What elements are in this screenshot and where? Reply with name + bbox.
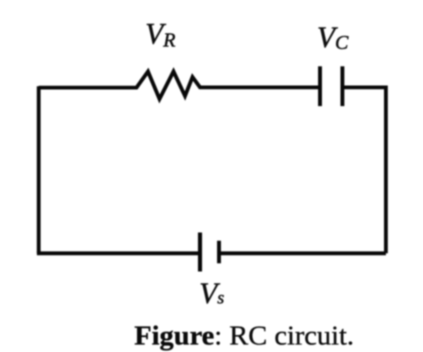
svg-text:Figure: RC circuit.: Figure: RC circuit. [134,320,354,350]
svg-text:VC: VC [317,22,349,54]
svg-text:VR: VR [145,18,175,51]
svg-text:Vs: Vs [199,278,224,310]
